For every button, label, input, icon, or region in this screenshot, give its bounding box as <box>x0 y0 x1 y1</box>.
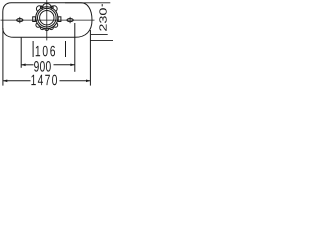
right lamp socket <box>67 19 73 22</box>
vertical centerline through canopy <box>46 0 48 40</box>
dim 230 top extension line <box>65 2 110 4</box>
canopy face mask <box>36 7 58 29</box>
finial left curl <box>40 6 42 8</box>
dim 900 right extension line <box>74 23 76 72</box>
arrow 900 right <box>70 64 74 67</box>
finial right curl <box>51 6 53 8</box>
label 1470 <box>31 75 57 86</box>
dim 106 left extension bar <box>32 41 34 57</box>
finial knob on top <box>43 4 51 9</box>
canopy scalloped edge <box>36 6 58 31</box>
dim 230 lower tick dash <box>91 34 108 36</box>
horizontal centerline <box>1 19 95 21</box>
canopy edge circle <box>36 7 58 29</box>
glass circle with crosshair <box>40 11 54 25</box>
arrow 900 left <box>21 64 25 67</box>
right socket slot <box>69 17 71 23</box>
canopy inner ring <box>38 8 57 27</box>
dim 230 bottom extension line <box>90 39 113 41</box>
dim 230 upper tick <box>101 4 103 6</box>
fixture outline (rounded-rect left end, round right end) <box>3 3 92 38</box>
crosshair horizontal <box>36 19 58 21</box>
dim 1470 line right segment <box>60 80 91 82</box>
label 900 <box>34 61 51 72</box>
canopy left tab <box>33 17 36 22</box>
left socket slot <box>19 17 21 23</box>
canopy right tab <box>58 17 61 22</box>
dim 900 line left segment <box>21 64 33 66</box>
dim 1470 right extension bar <box>89 30 91 86</box>
crosshair vertical <box>46 7 48 29</box>
dim 106 right extension bar <box>65 41 67 57</box>
arrow 1470 right <box>86 80 90 83</box>
dim 1470 line left segment <box>3 80 31 82</box>
arrow 1470 left <box>3 80 7 83</box>
dim 900 left extension line <box>20 38 22 68</box>
dim 900 line right segment <box>54 64 75 66</box>
left lamp socket <box>17 19 23 22</box>
label 106 <box>36 46 55 57</box>
label 230 <box>99 8 106 31</box>
dim 1470 left extension bar <box>2 28 4 86</box>
